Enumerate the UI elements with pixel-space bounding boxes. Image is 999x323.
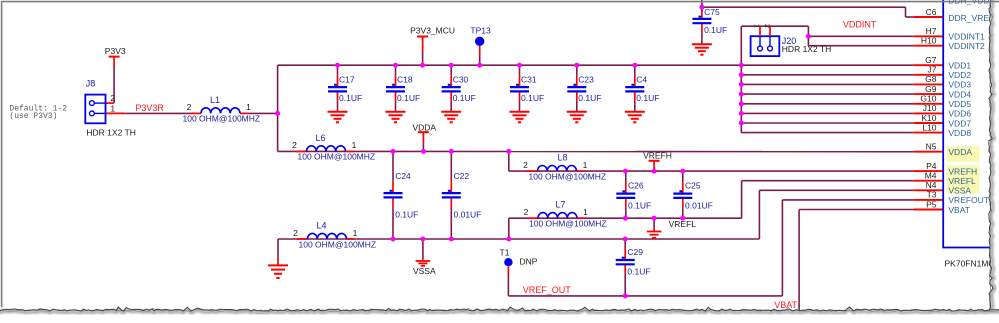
- svg-text:0.01UF: 0.01UF: [685, 200, 713, 210]
- IC part number PK70FN1M0V: [945, 258, 999, 268]
- ground VSSA: [413, 239, 436, 276]
- svg-text:N5: N5: [926, 142, 937, 152]
- svg-text:C4: C4: [636, 75, 647, 85]
- power symbol P3V3: [105, 46, 126, 66]
- yellow highlight on VDDA pin name: [947, 146, 980, 162]
- inductor L4 100 OHM@100MHZ: [293, 221, 376, 250]
- svg-text:0.1UF: 0.1UF: [397, 93, 420, 103]
- capacitor C18 0.1UF with ground: [386, 65, 421, 122]
- junction dots on VREFH run: [623, 169, 685, 174]
- power symbol P3V3_MCU: [410, 26, 455, 66]
- svg-text:100 OHM@100MHZ: 100 OHM@100MHZ: [529, 219, 607, 229]
- net label VREFL: [669, 219, 697, 229]
- net label VREF_OUT: [523, 285, 572, 295]
- net label VBAT: [774, 300, 797, 310]
- svg-text:1: 1: [110, 104, 115, 114]
- capacitor C24 0.1UF: [384, 151, 419, 239]
- wire VDD bus to pin G9: [741, 93, 914, 95]
- svg-text:G8: G8: [925, 74, 937, 84]
- svg-text:L8: L8: [558, 153, 568, 163]
- svg-text:0.1UF: 0.1UF: [453, 93, 476, 103]
- svg-text:DNP: DNP: [520, 257, 538, 267]
- wire VDDINT to pin H10: [808, 45, 913, 47]
- wire VDDINT riser: [807, 26, 809, 46]
- wire L7/VREFL run: [509, 217, 742, 219]
- svg-text:HDR 1X2 TH: HDR 1X2 TH: [782, 44, 831, 54]
- IC pin numbers: [920, 7, 936, 210]
- junction dot C75: [699, 5, 704, 10]
- capacitor C75 0.1UF with ground: [692, 7, 727, 55]
- svg-text:P3V3_MCU: P3V3_MCU: [410, 26, 455, 36]
- wire VSSA bottom rail: [278, 238, 759, 240]
- wire VDD bus to pin G10: [741, 103, 914, 105]
- svg-text:C24: C24: [395, 171, 411, 181]
- svg-text:C30: C30: [453, 75, 469, 85]
- svg-text:0.1UF: 0.1UF: [627, 266, 650, 276]
- svg-text:1: 1: [583, 207, 588, 217]
- wire VDD bus to pin K10: [741, 122, 914, 124]
- svg-text:C29: C29: [627, 247, 643, 257]
- wire VDDINT to pin H7: [808, 35, 913, 37]
- wire L1 to node at x278: [248, 112, 278, 114]
- svg-text:J10: J10: [923, 103, 937, 113]
- svg-text:2: 2: [763, 24, 770, 28]
- capacitor C23 0.1UF with ground: [567, 65, 602, 122]
- svg-text:0.1UF: 0.1UF: [704, 25, 727, 35]
- svg-text:VDD3: VDD3: [948, 80, 971, 90]
- svg-text:0.1UF: 0.1UF: [578, 93, 601, 103]
- svg-text:M4: M4: [925, 171, 937, 181]
- ground VREFL: [647, 218, 662, 238]
- wire L8/VREFH to pin P4: [509, 170, 914, 172]
- IC pin stubs (red): [914, 17, 943, 210]
- svg-text:L10: L10: [922, 122, 936, 132]
- wire P3V3 to J8 pin 2: [106, 67, 115, 104]
- svg-text:J7: J7: [928, 65, 937, 75]
- test point TP13: [470, 26, 491, 66]
- svg-text:VDD4: VDD4: [948, 89, 971, 99]
- svg-text:VDDA: VDDA: [412, 122, 436, 132]
- svg-text:VDDINT: VDDINT: [843, 20, 877, 30]
- wire L8 tap from VDDA rail: [508, 151, 510, 171]
- svg-text:VSSA: VSSA: [413, 266, 436, 276]
- IC PK70FN1M0V body edge: [943, 0, 991, 248]
- svg-text:H10: H10: [921, 36, 937, 46]
- capacitor C31 0.1UF with ground: [510, 65, 545, 122]
- capacitor C30 0.1UF with ground: [441, 65, 476, 122]
- power symbol VDDA: [412, 122, 436, 151]
- svg-text:100 OHM@100MHZ: 100 OHM@100MHZ: [299, 239, 377, 249]
- svg-text:K10: K10: [921, 113, 936, 123]
- svg-text:(use P3V3): (use P3V3): [9, 112, 57, 121]
- inductor L6 100 OHM@100MHZ: [292, 133, 375, 162]
- svg-text:L1: L1: [210, 95, 220, 105]
- wire J20 top run: [741, 25, 808, 27]
- svg-text:1: 1: [583, 160, 588, 170]
- wire T1 to VREF_OUT: [507, 267, 509, 296]
- svg-text:P5: P5: [926, 199, 937, 209]
- svg-text:P3V3R: P3V3R: [135, 103, 164, 113]
- svg-text:1: 1: [352, 140, 357, 150]
- capacitor C29 0.1UF: [616, 239, 651, 296]
- svg-text:G7: G7: [925, 55, 937, 65]
- wire VDD bus to pin J7: [741, 74, 914, 76]
- junction dots on VDD bus: [739, 72, 744, 125]
- svg-text:VDD6: VDD6: [948, 109, 971, 119]
- power symbol VREFH: [643, 150, 672, 171]
- svg-text:VREFH: VREFH: [643, 150, 672, 160]
- capacitor C26 0.1UF: [616, 171, 651, 218]
- svg-text:0.1UF: 0.1UF: [395, 209, 418, 219]
- svg-text:C75: C75: [704, 7, 720, 17]
- wire P3V3_MCU rail: [278, 64, 914, 66]
- svg-text:2: 2: [292, 140, 297, 150]
- svg-text:2: 2: [187, 102, 192, 112]
- wire VBAT riser: [799, 210, 914, 314]
- svg-text:C31: C31: [521, 75, 537, 85]
- svg-text:VDDA: VDDA: [948, 147, 972, 157]
- svg-text:1: 1: [353, 228, 358, 238]
- capacitor C4 0.1UF with ground: [625, 65, 660, 122]
- wire vertical x278 rail to VDDA rail: [277, 65, 279, 151]
- net label VDDINT: [843, 20, 877, 30]
- junction dots on VREFL run: [623, 216, 685, 221]
- svg-text:L4: L4: [317, 221, 327, 231]
- svg-text:L7: L7: [556, 200, 566, 210]
- svg-text:P4: P4: [926, 161, 937, 171]
- wire L7 tap from bottom rail: [508, 218, 510, 239]
- wire J8 pin 1 to L1: [106, 112, 191, 114]
- svg-text:TP13: TP13: [470, 26, 491, 36]
- svg-text:0.1UF: 0.1UF: [339, 93, 362, 103]
- capacitor C17 0.1UF with ground: [328, 65, 363, 122]
- wire C75 net to pin C6: [702, 0, 914, 17]
- svg-text:VDD2: VDD2: [948, 70, 971, 80]
- svg-text:P3V3: P3V3: [105, 46, 126, 56]
- svg-text:VDD5: VDD5: [948, 99, 971, 109]
- svg-text:C18: C18: [397, 75, 413, 85]
- svg-text:VDD1: VDD1: [948, 61, 971, 71]
- junction dot on VREF_OUT: [623, 293, 628, 298]
- note Default: 1-2 (use P3V3): [9, 105, 67, 121]
- svg-text:2: 2: [293, 228, 298, 238]
- test point T1 DNP: [500, 247, 538, 266]
- svg-text:0.1UF: 0.1UF: [636, 93, 659, 103]
- svg-text:2: 2: [110, 93, 115, 103]
- svg-text:VSSA: VSSA: [948, 186, 971, 196]
- svg-text:VBAT: VBAT: [774, 300, 797, 310]
- svg-text:C22: C22: [454, 171, 470, 181]
- wire VDD bus vertical: [740, 26, 742, 132]
- wire VSSA rail riser to pin N4: [759, 190, 913, 239]
- svg-text:G9: G9: [925, 84, 937, 94]
- net label P3V3R: [135, 103, 164, 113]
- wire VREFL riser to pin M4: [742, 181, 914, 219]
- svg-text:C26: C26: [628, 180, 644, 190]
- inductor L8 100 OHM@100MHZ: [523, 153, 606, 182]
- wire VDD bus to pin G8: [741, 83, 914, 85]
- svg-text:HDR 1X2 TH: HDR 1X2 TH: [86, 128, 135, 138]
- IC pin names: [948, 0, 999, 215]
- junction dots on VSSA bottom rail: [391, 237, 628, 242]
- wire VDDA rail: [278, 150, 914, 152]
- svg-text:J8: J8: [86, 79, 96, 89]
- junction dot L1/x278: [275, 111, 280, 116]
- wire VREF_OUT riser to pin T3: [782, 200, 913, 296]
- svg-text:0.1UF: 0.1UF: [521, 93, 544, 103]
- svg-text:1: 1: [753, 24, 760, 28]
- svg-text:C17: C17: [339, 75, 355, 85]
- yellow highlight on VREFH/VREFL/VSSA pin names: [947, 165, 980, 193]
- svg-text:N4: N4: [926, 180, 937, 190]
- connector J8 HDR 1X2 TH: [85, 79, 136, 138]
- svg-text:VDD7: VDD7: [948, 118, 971, 128]
- svg-text:T3: T3: [927, 190, 937, 200]
- svg-text:VREF_OUT: VREF_OUT: [523, 285, 572, 295]
- svg-text:T1: T1: [500, 247, 510, 257]
- svg-text:2: 2: [524, 207, 529, 217]
- wire VDD bus to pin J10: [741, 112, 914, 114]
- svg-text:VREFOUT_: VREFOUT_: [948, 195, 994, 205]
- junction dots on P3V3_MCU rail: [335, 63, 744, 68]
- svg-text:100 OHM@100MHZ: 100 OHM@100MHZ: [529, 171, 607, 181]
- svg-text:VDD8: VDD8: [948, 128, 971, 138]
- svg-text:0.01UF: 0.01UF: [454, 209, 482, 219]
- svg-text:100 OHM@100MHZ: 100 OHM@100MHZ: [298, 152, 376, 162]
- capacitor C25 0.01UF: [673, 171, 713, 218]
- wire VDD bus to pin L10: [741, 132, 914, 134]
- junction dot VDDINT/H7: [806, 34, 811, 39]
- junction dots on VDDA rail: [391, 149, 512, 154]
- svg-text:1: 1: [246, 102, 251, 112]
- svg-text:VREFH: VREFH: [948, 166, 977, 176]
- svg-text:L6: L6: [316, 133, 326, 143]
- wire VREF_OUT run: [508, 295, 782, 297]
- inductor L7 100 OHM@100MHZ: [524, 200, 607, 229]
- capacitor C22 0.01UF: [442, 151, 482, 239]
- connector J20 HDR 1X2 TH: [751, 24, 832, 56]
- svg-text:C23: C23: [578, 75, 594, 85]
- inductor L1 100 OHM@100MHZ: [183, 95, 261, 124]
- ground under L4: [268, 265, 288, 278]
- svg-text:VBAT: VBAT: [948, 205, 970, 215]
- svg-text:100 OHM@100MHZ: 100 OHM@100MHZ: [183, 114, 261, 124]
- wire L4 left leg to ground: [277, 239, 279, 265]
- svg-text:VDDINT2: VDDINT2: [948, 41, 985, 51]
- svg-text:G10: G10: [920, 94, 936, 104]
- svg-text:C25: C25: [685, 180, 701, 190]
- svg-text:VREFL: VREFL: [948, 176, 976, 186]
- svg-text:0.1UF: 0.1UF: [628, 200, 651, 210]
- svg-text:C6: C6: [926, 7, 937, 17]
- svg-text:2: 2: [523, 160, 528, 170]
